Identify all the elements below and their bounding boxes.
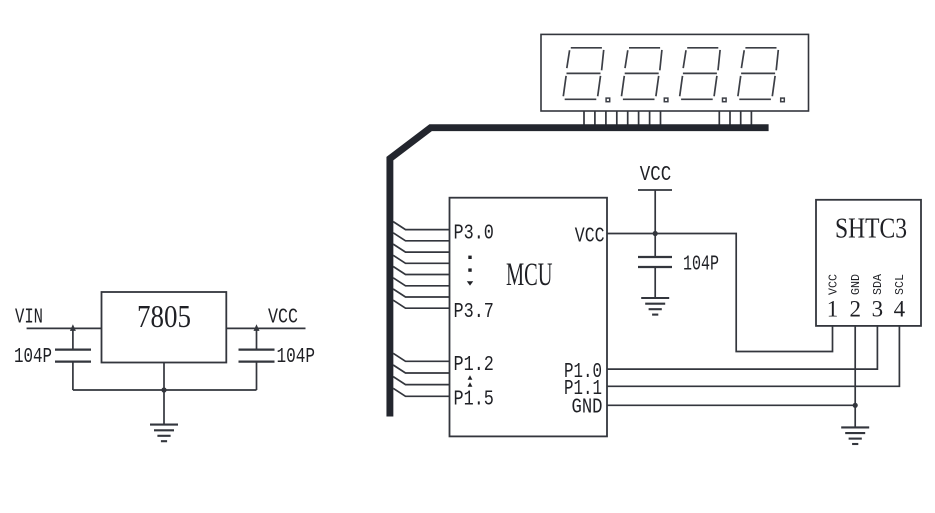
node VCC junction arrow: [254, 324, 260, 331]
svg-text:104P: 104P: [14, 346, 52, 369]
display pin 5: [627, 111, 629, 125]
wire P1.0 to SDA: [607, 326, 877, 369]
svg-text:4: 4: [894, 296, 906, 321]
svg-text:P3.7: P3.7: [454, 301, 494, 324]
wire bus to P1.2: [393, 353, 449, 361]
svg-text:SCL: SCL: [894, 274, 907, 295]
bus wire (thick): [390, 128, 769, 417]
node ground rail junction: [161, 387, 166, 392]
wire MCU VCC to SHTC3 pin1: [607, 234, 833, 352]
wire GND net: [607, 404, 855, 406]
svg-text:GND: GND: [572, 397, 603, 420]
svg-text:P1.5: P1.5: [454, 389, 494, 412]
display pin 10: [729, 111, 731, 125]
ground G2: [641, 298, 669, 315]
wire ground rail: [73, 389, 257, 391]
regulator U1 7805 box: [102, 292, 227, 363]
display pin 8: [660, 111, 662, 125]
capacitor C1 104P: [55, 328, 91, 390]
ground G3: [841, 427, 869, 444]
display pin 7: [649, 111, 651, 125]
svg-text:SHTC3: SHTC3: [835, 213, 907, 244]
svg-text:VCC: VCC: [827, 274, 840, 295]
display digit 2: [622, 48, 668, 102]
svg-text:VCC: VCC: [640, 164, 672, 187]
display DS1 box: [541, 34, 809, 111]
wire bus to P1.5: [393, 388, 449, 396]
wire bus to P1.4: [393, 377, 449, 385]
wire 7805 ground tap: [163, 363, 165, 425]
capacitor C2 104P: [239, 328, 275, 390]
wire bus to P3.6: [393, 289, 449, 297]
capacitor C3 104P: [638, 234, 672, 299]
sensor U3 SHTC3 box: [816, 200, 921, 326]
wire bus to P3.4: [393, 267, 449, 275]
display pin 2: [594, 111, 596, 125]
svg-text:3: 3: [872, 296, 884, 321]
svg-text:GND: GND: [850, 274, 863, 295]
wire bus to P1.3: [393, 365, 449, 373]
wire bus to P3.7: [393, 300, 449, 308]
display pin 6: [638, 111, 640, 125]
display pin 9: [718, 111, 720, 125]
svg-text:VCC: VCC: [268, 307, 298, 330]
display pin 11: [740, 111, 742, 125]
wire P1.1 to SCL: [607, 326, 899, 386]
svg-text:P1.2: P1.2: [454, 354, 494, 377]
wire bus to P3.2: [393, 244, 449, 252]
display pin 12: [750, 111, 752, 125]
display digit 1: [563, 48, 609, 102]
wire bus to P3.1: [393, 233, 449, 241]
display pin 3: [605, 111, 607, 125]
display digit 4: [738, 48, 784, 102]
ellipsis P1 group: [468, 375, 473, 387]
svg-text:VCC: VCC: [575, 226, 605, 249]
wire SHTC3 pin2 to ground: [854, 326, 856, 428]
svg-text:7805: 7805: [137, 298, 191, 334]
wire VCC output: [226, 327, 305, 329]
display pin 1: [583, 111, 585, 125]
svg-text:MCU: MCU: [506, 257, 553, 293]
svg-text:104P: 104P: [277, 346, 316, 369]
node VIN junction arrow: [70, 324, 76, 331]
wire bus to P3.3: [393, 255, 449, 263]
wire VIN input: [27, 327, 102, 329]
display digit 3: [680, 48, 726, 102]
ground G1: [150, 425, 178, 442]
svg-text:P3.0: P3.0: [454, 223, 494, 246]
node GND junction: [853, 403, 858, 408]
svg-text:104P: 104P: [683, 254, 719, 277]
ellipsis P3 group: [467, 256, 473, 286]
wire bus to P3.0: [393, 222, 449, 230]
svg-text:1: 1: [827, 296, 839, 321]
MCU U2 box: [450, 198, 608, 437]
svg-text:VIN: VIN: [15, 307, 43, 330]
wire bus to P3.5: [393, 278, 449, 286]
svg-text:2: 2: [849, 296, 861, 321]
svg-text:SDA: SDA: [872, 274, 885, 295]
node VCC junction: [653, 231, 658, 236]
display pin 4: [616, 111, 618, 125]
power symbol VCC bar: [638, 190, 672, 234]
